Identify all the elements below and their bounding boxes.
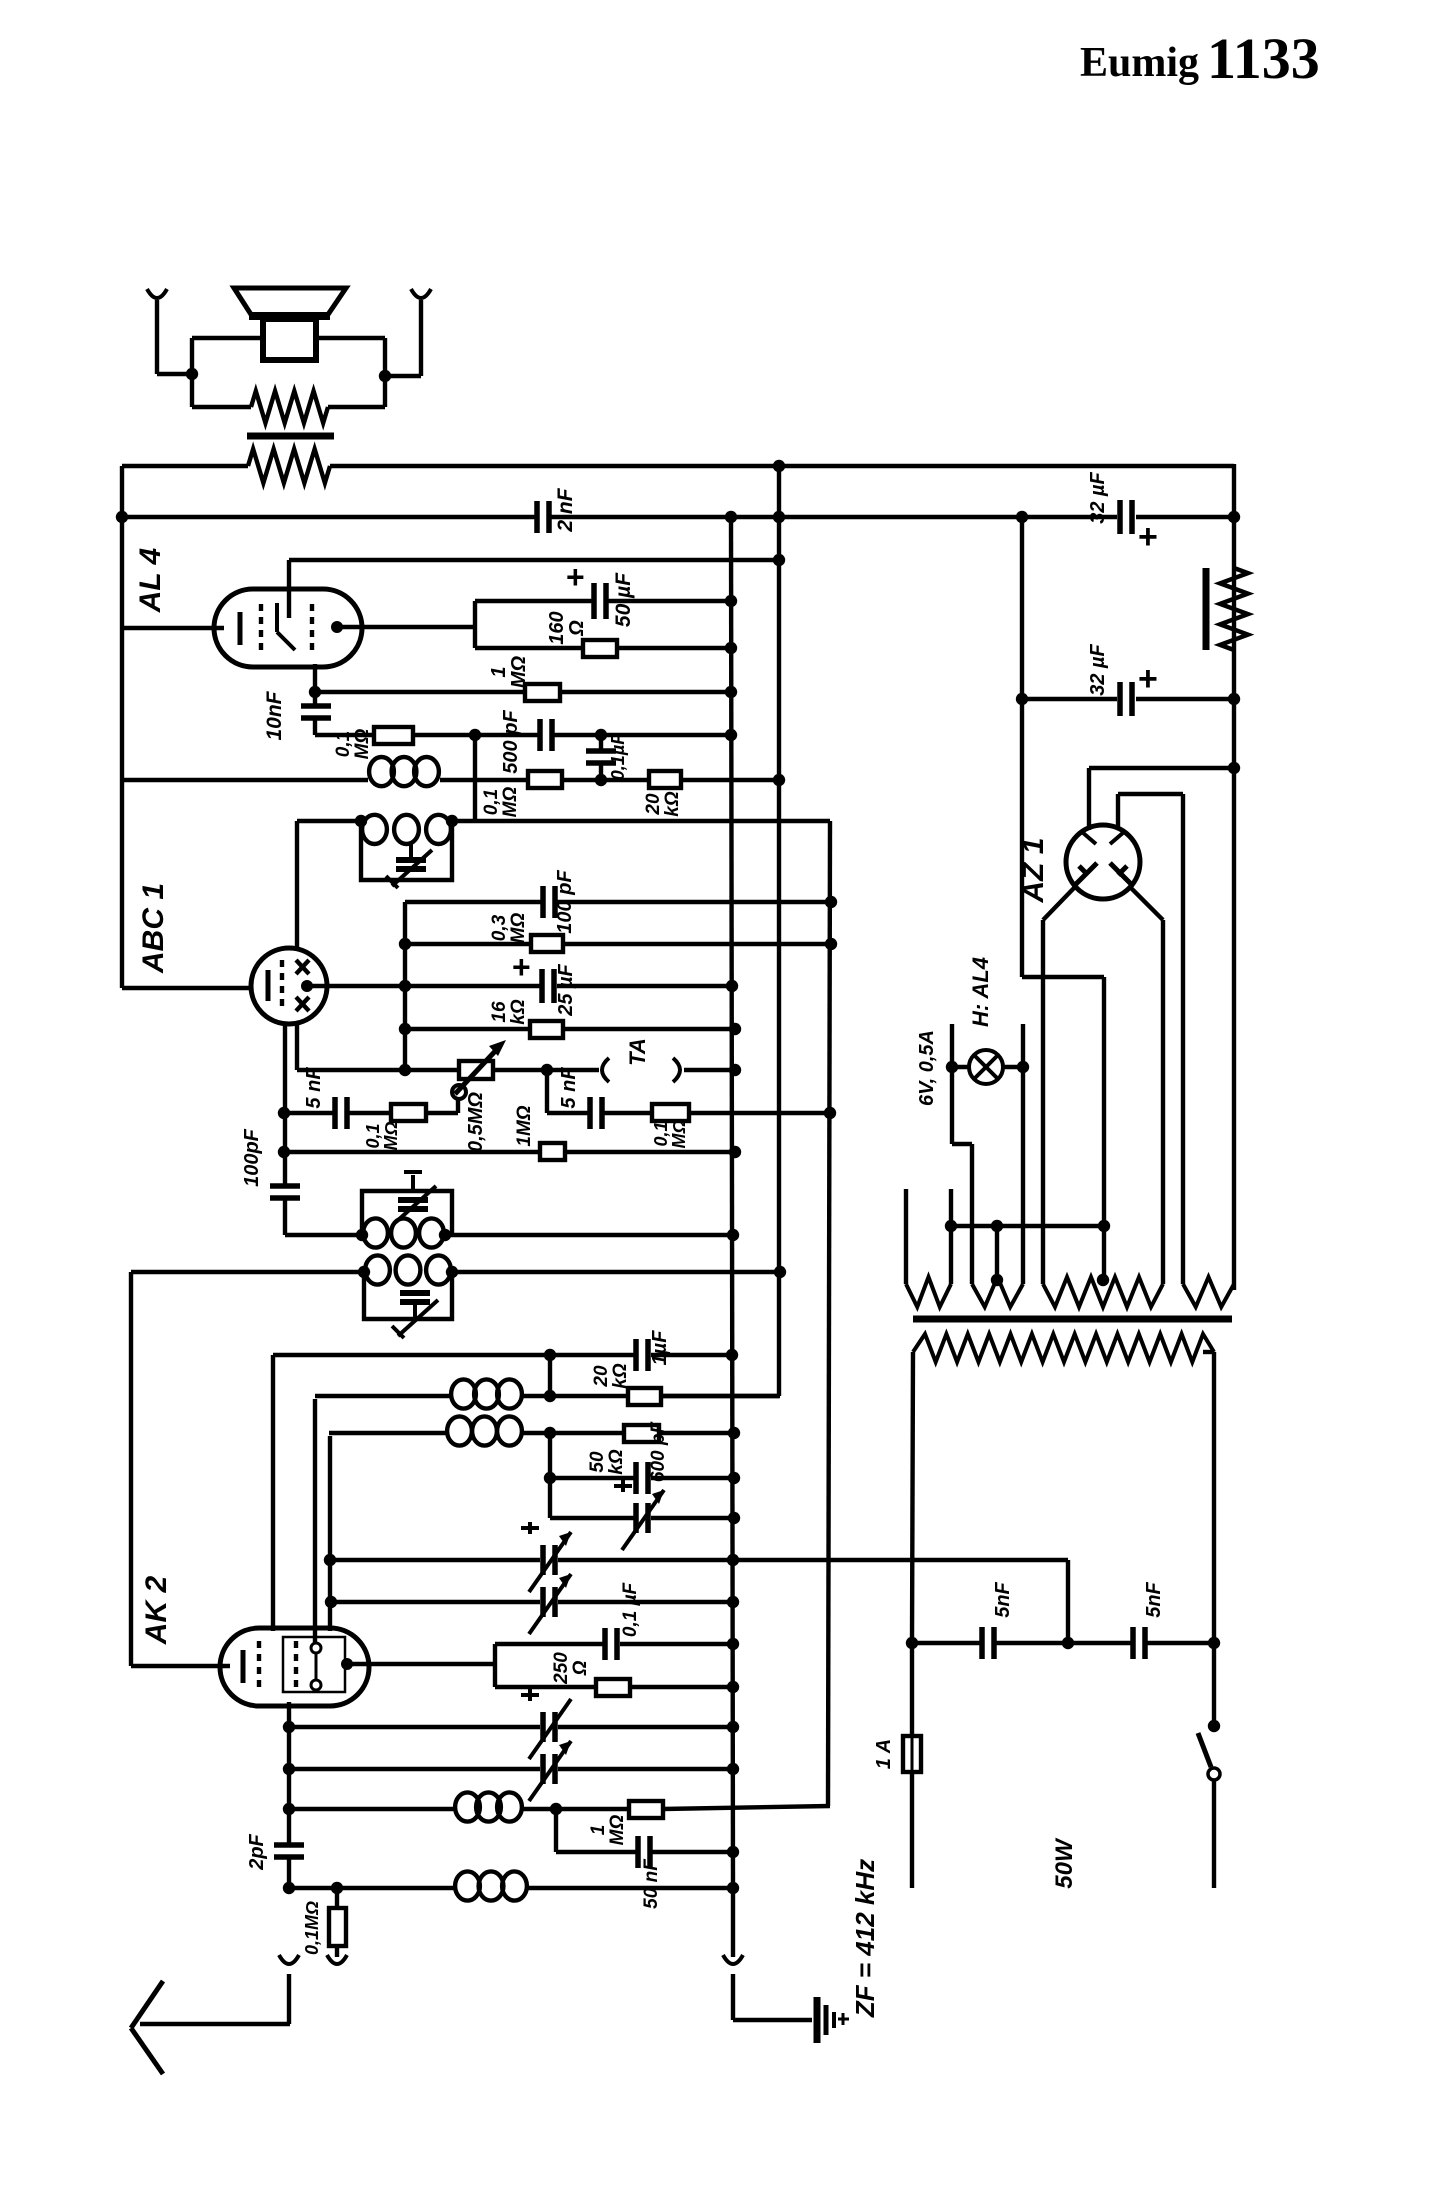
wire bus osc [828,821,830,1806]
node [1017,1061,1029,1073]
wire mains left [912,1352,913,1643]
node [595,729,607,741]
AL4 grid2 dashed [310,604,314,651]
wire row antenna coil [289,1886,454,1890]
wire row 1uF [273,1353,634,1357]
ABC1 grid dashed [280,960,284,1012]
ABC1 cathode [266,970,271,1001]
svg-text:TA: TA [625,1038,650,1066]
wire g2 line [405,900,545,904]
svg-text:+: + [566,559,585,595]
node [544,1390,556,1402]
resistor 20 kOhm [649,771,681,788]
wire 1M line [315,690,525,694]
resistor 160 Ohm [583,640,617,657]
resistor 1 MOhm [525,684,560,701]
wire anode network vertical [493,1644,497,1687]
svg-text:600 pF: 600 pF [648,1421,669,1483]
inductor coupling coil 1 [451,1379,476,1408]
AK2 anode [341,1658,353,1670]
svg-text:MΩ: MΩ [669,1119,689,1148]
wire osc line 2 [131,1270,364,1274]
svg-text:0,1: 0,1 [651,1121,671,1146]
AK2 cathode [241,1650,246,1683]
wire 5nF branch right [545,1070,549,1113]
jack TA left [602,1058,609,1082]
svg-text:5 nF: 5 nF [303,1067,325,1109]
wire [1087,768,1091,830]
node [727,1681,739,1693]
capacitor 0.1uF [599,735,603,749]
jack ground [723,1955,743,1964]
svg-text:32 µF: 32 µF [1087,471,1109,523]
svg-text:160: 160 [546,611,568,644]
wire left bus [120,466,124,988]
transformer primary winding 1 [906,1277,951,1307]
variable capacitor tuning 2 [540,1587,546,1617]
node [399,938,411,950]
wire row feedback coil [289,1807,454,1811]
svg-text:kΩ: kΩ [508,999,529,1025]
node [727,1763,739,1775]
svg-text:0,1: 0,1 [481,789,502,815]
svg-text:Eumig: Eumig [1080,40,1199,86]
trimmer capacitor IF1 [409,843,413,857]
node [469,729,481,741]
inductor feedback coil [455,1792,480,1821]
node [544,1427,556,1439]
node [355,815,367,827]
capacitor 5nF [587,1097,593,1129]
wire bus ABC1 [403,902,407,1070]
node [773,554,785,566]
wire ABC1 cathode lead [122,986,253,990]
wire heater stub left [950,1024,954,1144]
wire ABC1 anode line [307,984,405,988]
svg-text:ABC 1: ABC 1 [137,883,170,974]
wire 0.3M line [405,942,531,946]
wire stub [949,1189,953,1284]
wire AL4 anode line [337,625,475,629]
trimmer capacitor padder [633,1503,639,1533]
capacitor 5nF [332,1097,338,1129]
svg-text:MΩ: MΩ [508,913,529,944]
node [278,1146,290,1158]
wire 160ohm branch [475,646,583,650]
wire heater tap line [951,1224,1104,1228]
resistor 1 MOhm [629,1801,663,1818]
node [774,1266,786,1278]
inductor osc coil 2 [365,1255,390,1284]
capacitor 100pF [540,886,546,918]
node [728,1427,740,1439]
svg-text:2pF: 2pF [246,1833,268,1870]
wire AL4 grid line [289,558,779,562]
svg-text:AZ 1: AZ 1 [1017,837,1050,903]
AZ1 anodes [1076,863,1131,884]
svg-text:kΩ: kΩ [662,791,683,817]
ABC1 diode plates [296,960,309,974]
wire antenna lead [287,1974,291,2024]
wire AK2 cathode lead [129,1272,133,1666]
wire [731,1974,735,2020]
resistor 250 Ohm [596,1679,630,1696]
tube AK2 envelope [220,1628,369,1706]
node [1016,511,1028,523]
node [728,1512,740,1524]
wire tap [995,1226,999,1284]
capacitor 5nF mains 1 [979,1627,985,1659]
svg-text:Ω: Ω [566,620,588,637]
node [991,1274,1003,1286]
svg-text:100pF: 100pF [241,1128,263,1187]
AZ1 filament [1082,832,1124,844]
capacitor 50nF [635,1836,641,1868]
svg-text:6V, 0,5A: 6V, 0,5A [916,1030,938,1106]
wire HT right corner [1232,464,1236,1290]
antenna symbol [140,2022,290,2026]
AK2 grids dashed [257,1641,261,1693]
IF1 secondary box [361,821,452,880]
node [356,1229,368,1241]
svg-text:25 µF: 25 µF [555,963,577,1016]
svg-text:0,1: 0,1 [333,731,354,757]
node [1228,762,1240,774]
wire osc line to right [452,819,830,823]
node [725,642,737,654]
wire AVC line [124,778,368,782]
svg-text:0,1µF: 0,1µF [608,733,628,780]
AK2 inner box [283,1637,345,1692]
wire HT rail top [122,464,248,468]
node [727,1721,739,1733]
resistor 16 kOhm [530,1021,563,1038]
node [728,1472,740,1484]
wire AZ1 anode feed [1089,766,1234,770]
svg-text:H: AL4: H: AL4 [968,957,993,1027]
svg-text:MΩ: MΩ [500,787,521,818]
bleeder resistor [1203,568,1210,650]
node [945,1220,957,1232]
svg-text:0,1MΩ: 0,1MΩ [302,1901,322,1955]
svg-text:0,1 µF: 0,1 µF [620,1581,641,1637]
wire volume line [405,1068,459,1072]
capacitor 1uF [633,1339,639,1371]
svg-text:100 pF: 100 pF [554,870,576,934]
svg-text:1: 1 [488,666,510,677]
inductor antenna coil [455,1871,480,1900]
svg-text:+: + [1138,518,1158,556]
node [399,1023,411,1035]
resistor 0.1 MOhm grid [528,771,562,788]
svg-text:20: 20 [591,1365,612,1388]
svg-text:10nF: 10nF [263,690,286,740]
wire row osc tuning 2 [289,1767,540,1771]
capacitor 32uF upper [1117,500,1123,534]
svg-text:50W: 50W [1051,1837,1078,1889]
switch mains [1198,1733,1211,1767]
resistor 20 kOhm [628,1388,661,1405]
svg-text:1: 1 [588,1825,609,1836]
node [1016,693,1028,705]
variable capacitor osc tuning 1 [540,1712,546,1742]
node [725,595,737,607]
wire AK2 anode line [347,1662,495,1666]
wire [271,1355,275,1357]
node [541,1064,553,1076]
trimmer capacitor osc1 [411,1175,415,1191]
wire 16k line [405,1027,530,1031]
node [725,729,737,741]
wire stub [904,1189,908,1284]
node [726,1349,738,1361]
svg-text:500 pF: 500 pF [500,710,522,774]
node [283,1803,295,1815]
wire [287,1727,291,1769]
svg-text:50: 50 [587,1451,608,1473]
node [727,1229,739,1241]
node [1098,1220,1110,1232]
svg-text:0,3: 0,3 [489,914,510,941]
capacitor 100pF grid [270,1183,300,1189]
wire bus B [731,517,733,1888]
AL4 cathode [238,612,243,645]
capacitor 5nF mains 2 [1130,1627,1136,1659]
wire rail2 [122,515,538,519]
wire [385,374,421,378]
svg-text:50 nF: 50 nF [641,1858,662,1909]
wire 50nF branch [554,1809,558,1852]
svg-text:5 nF: 5 nF [558,1067,580,1109]
svg-text:1 A: 1 A [873,1739,895,1769]
svg-text:AL 4: AL 4 [134,547,167,613]
wire ABC1 bottom leads [283,1023,287,1187]
wire row tuning 1 [330,1558,540,1562]
node [595,774,607,786]
tube AL4 envelope [214,589,362,667]
capacitor 2pF [287,1769,291,1844]
jack terminal right speaker [411,289,431,298]
node speaker-left [186,368,198,380]
svg-text:20: 20 [643,793,664,816]
node [1208,1637,1220,1649]
svg-text:5nF: 5nF [1143,1581,1165,1617]
capacitor 32uF lower [1020,517,1024,977]
resistor 0.1 MOhm antenna [335,1888,339,1908]
wire [473,735,477,821]
node [726,980,738,992]
jack antenna resistor [327,1955,347,1964]
trimmer capacitor osc2 [413,1305,417,1319]
node [727,1596,739,1608]
node [283,1882,295,1894]
osc coil 1 box [362,1191,452,1235]
transformer mains primary [913,1334,1214,1362]
svg-text:50 µF: 50 µF [612,572,635,627]
inductor coupling coil 2 [447,1416,472,1445]
variable capacitor tuning 1 [540,1545,546,1575]
capacitor 600pF [633,1462,639,1494]
AL4 screen [275,603,279,632]
AL4 grid dashed [259,604,263,651]
node [1228,511,1240,523]
node [446,1266,458,1278]
node [773,511,785,523]
node [727,1554,739,1566]
node [773,460,785,472]
resistor 50 kOhm [624,1425,659,1442]
svg-text:0,1: 0,1 [363,1123,383,1148]
node [331,1882,343,1894]
svg-text:1133: 1133 [1207,26,1320,91]
svg-text:MΩ: MΩ [508,655,530,688]
node [1208,1720,1220,1732]
jack TA right [673,1058,680,1082]
wire row osc tuning 1 [289,1725,540,1729]
AL4 anode [331,621,343,633]
wire to ground [731,1888,735,1957]
wire 0.1uF branch [495,1642,603,1646]
svg-text:16: 16 [489,1001,510,1023]
wire 250ohm branch [495,1685,596,1689]
capacitor 10nF [313,692,317,707]
wire mains right [1203,1350,1214,1354]
capacitor 500pF [537,719,543,751]
wire AK2 bottom pin [287,1702,291,1727]
wire [548,1433,552,1518]
fuse 1A [910,1643,914,1736]
wire row tuning 2 [331,1600,540,1604]
node [727,1846,739,1858]
transformer primary winding 2 [972,1277,1023,1307]
wire 5nF branch left [284,1111,335,1115]
svg-text:Ω: Ω [570,1660,591,1676]
node [727,1882,739,1894]
node [446,815,458,827]
wire AZ1 cathode legs [1043,888,1074,920]
wire line filter [1066,1560,1070,1643]
svg-text:32 µF: 32 µF [1087,643,1109,695]
node [824,1107,836,1119]
node [991,1220,1003,1232]
wire [445,1233,733,1237]
svg-text:AK 2: AK 2 [140,1576,173,1646]
svg-text:MΩ: MΩ [381,1121,401,1150]
node [325,1596,337,1608]
inductor IF1 primary [369,757,394,786]
transformer core [913,1316,1232,1323]
wire AK2 top pins [271,1357,275,1631]
svg-text:5nF: 5nF [992,1581,1014,1617]
node [309,686,321,698]
node [439,1229,451,1241]
node [116,511,128,523]
svg-text:+: + [512,949,531,985]
wire 25uF line [405,984,540,988]
node [773,774,785,786]
node [729,1064,741,1076]
wire 1M line [284,1150,540,1154]
wire 50uF branch [475,599,595,603]
node [399,980,411,992]
wire row 20k [315,1394,450,1398]
svg-text:1µF: 1µF [649,1330,671,1366]
svg-text:1MΩ: 1MΩ [514,1105,535,1146]
svg-text:2 nF: 2 nF [554,487,577,532]
wire row 600pF [550,1476,634,1480]
node [283,1721,295,1733]
node [729,1146,741,1158]
transformer HT winding [1183,1277,1234,1307]
capacitor 50uF [591,583,597,619]
wire row padder [550,1516,634,1520]
node [399,1064,411,1076]
inductor IF1 secondary [362,815,387,844]
node [283,1763,295,1775]
AK2 grid dashed 2 [294,1641,298,1693]
svg-text:250: 250 [551,1652,572,1685]
wire ABC1 grid lead [295,821,299,948]
resistor output transformer primary [248,449,330,483]
svg-text:kΩ: kΩ [610,1363,631,1389]
ground symbol [814,1997,821,2043]
wire [684,1068,735,1072]
jack antenna [279,1955,299,1964]
node speaker-right [379,370,391,382]
wire speaker loop [190,338,194,407]
node [729,1023,741,1035]
inductor osc coil 1 [363,1218,388,1247]
wire grid-leak line [315,733,374,737]
node [550,1803,562,1815]
node [725,686,737,698]
wire AL4 top grid lead [287,560,291,618]
node [727,1638,739,1650]
node [825,896,837,908]
wire lamp left [952,1065,969,1069]
capacitor 25uF [539,969,545,1003]
node [1097,1274,1109,1286]
resistor 0.3 MOhm [531,935,563,952]
node [1228,693,1240,705]
node [946,1061,958,1073]
capacitor 2nF [534,501,540,533]
node [544,1349,556,1361]
tube ABC1 envelope [251,948,327,1024]
resistor 0.1 MOhm [391,1104,426,1121]
AK2 grid circles [311,1643,321,1653]
wire cathode to caps [1022,975,1104,979]
wire AZ1 heater right [1116,794,1120,830]
variable capacitor osc tuning 2 [540,1754,546,1784]
node [825,938,837,950]
jack terminal left speaker [147,289,167,298]
svg-text:kΩ: kΩ [606,1449,627,1475]
wire [283,1197,287,1235]
transformer heater winding [1043,1277,1163,1307]
node [324,1554,336,1566]
svg-text:0,5MΩ: 0,5MΩ [465,1092,487,1152]
node [725,511,737,523]
wire lamp right [1003,1065,1023,1069]
output transformer core [247,433,334,440]
ABC1 anode [301,980,313,992]
svg-text:MΩ: MΩ [352,729,373,760]
resistor hum-bucking coil [251,391,328,423]
capacitor 0.1uF anode [602,1628,608,1660]
node [1062,1637,1074,1649]
wire AL4 cathode lead [122,626,224,630]
